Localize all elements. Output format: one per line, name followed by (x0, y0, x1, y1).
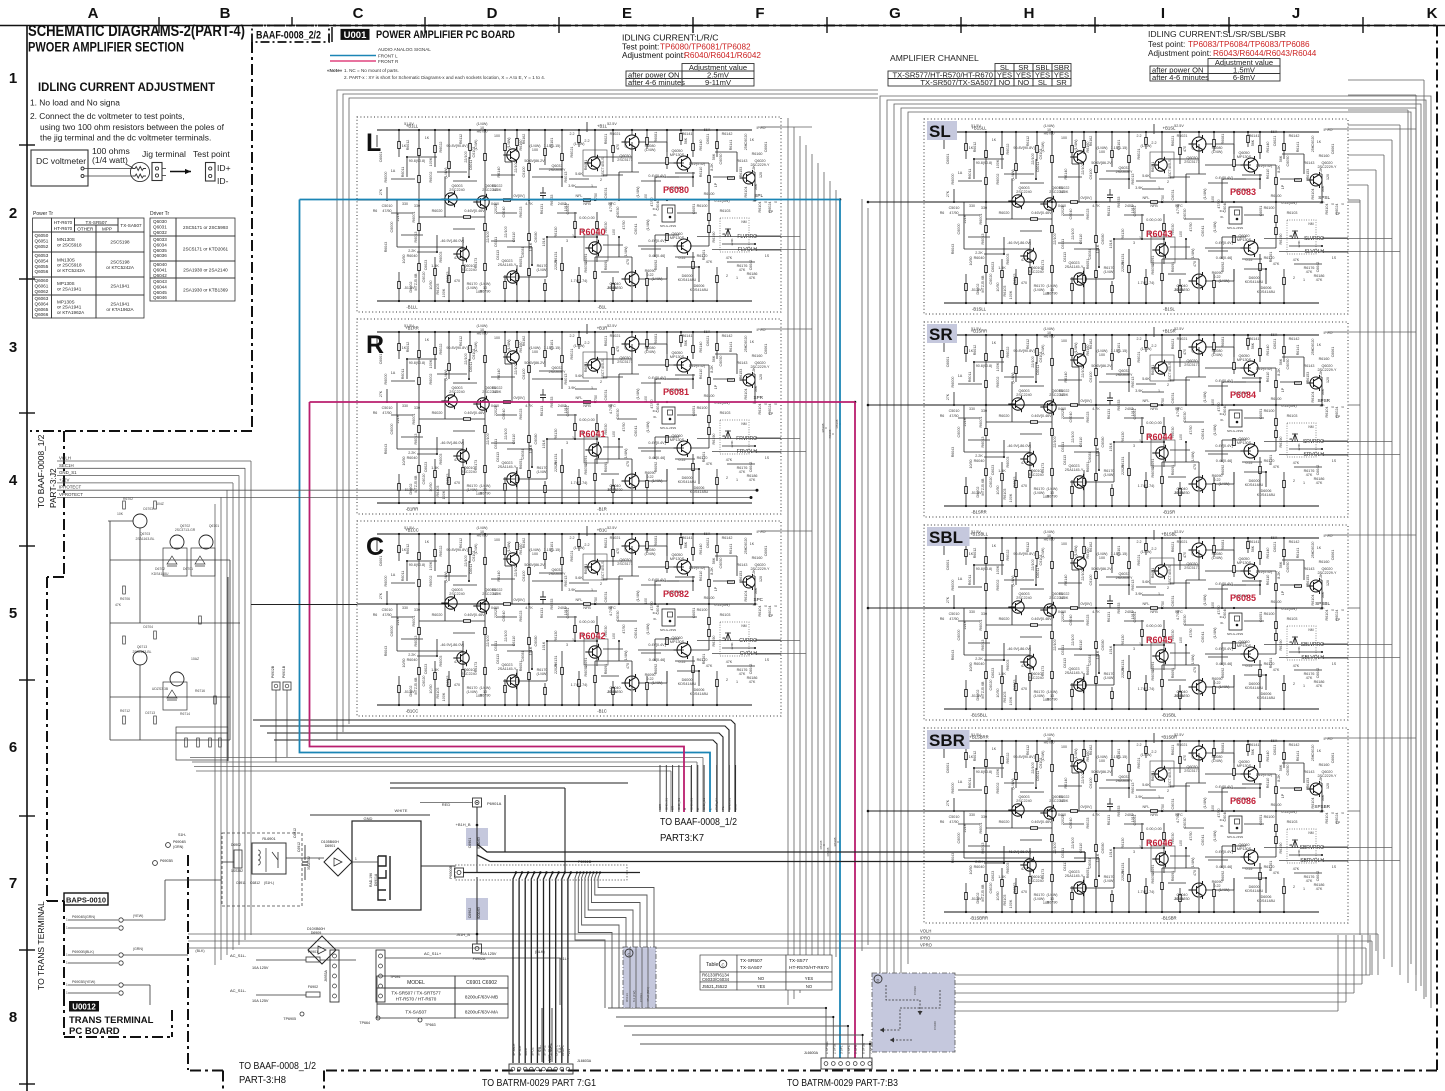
svg-text:2SC5198: 2SC5198 (110, 240, 130, 245)
svg-text:2SA1930 or 2SA2140: 2SA1930 or 2SA2140 (183, 268, 228, 273)
svg-text:SPSBL: SPSBL (1315, 601, 1330, 606)
svg-text:(GRN): (GRN) (133, 947, 143, 951)
SBLVPRO / SBLVOLH output lines (1264, 644, 1348, 646)
power wires (222, 861, 234, 863)
P6901A connector (473, 798, 482, 807)
svg-text:Q6032: Q6032 (153, 230, 167, 235)
svg-text:(1/4 watt): (1/4 watt) (92, 155, 128, 165)
arrow (170, 171, 191, 173)
amplifier channel SR (924, 322, 1348, 517)
svg-text:P6081: P6081 (663, 387, 689, 397)
svg-text:the jig terminal and the dc vo: the jig terminal and the dc voltmeter te… (40, 132, 211, 142)
svg-text:D: D (487, 5, 498, 22)
lavender box C (left) (623, 947, 656, 1008)
svg-text:or KTC5242A: or KTC5242A (57, 268, 86, 273)
svg-text:8: 8 (9, 1009, 17, 1026)
bottom RC cluster (176, 727, 228, 760)
svg-text:C6703: C6703 (143, 507, 153, 511)
svg-text:8200uF/63V-MB: 8200uF/63V-MB (465, 995, 498, 1000)
svg-text:or KTA1962A: or KTA1962A (57, 310, 85, 315)
svg-text:GND_S1: GND_S1 (677, 798, 681, 810)
svg-text:-B1SLL: -B1SLL (972, 307, 987, 312)
amplifier channel L (357, 117, 781, 312)
svg-text:U001: U001 (344, 30, 367, 41)
svg-text:C6912: C6912 (297, 842, 301, 852)
svg-text:HT-R670: HT-R670 (54, 220, 73, 225)
svg-text:SBLVPRO: SBLVPRO (1301, 642, 1324, 648)
table C (700, 955, 737, 972)
svg-text:+B1LL: +B1LL (406, 124, 419, 129)
svg-text:PART-3:H8: PART-3:H8 (239, 1074, 286, 1086)
svg-text:C6902: C6902 (468, 908, 472, 919)
relay dashed box (222, 833, 302, 906)
protection transistor Q6702 (170, 535, 184, 549)
svg-text:TO BATRM-0029 PART 7:G1: TO BATRM-0029 PART 7:G1 (482, 1077, 596, 1089)
svg-text:D6901: D6901 (325, 844, 336, 848)
svg-text:VPRO: VPRO (920, 943, 933, 948)
svg-text:-B1SBRR: -B1SBRR (970, 916, 988, 921)
svg-text:2SA1930 or KTB1369: 2SA1930 or KTB1369 (183, 288, 228, 293)
svg-text:PART3:K7: PART3:K7 (660, 832, 704, 844)
svg-text:PWOER AMPLIFIER SECTION: PWOER AMPLIFIER SECTION (28, 40, 184, 55)
svg-text:FLVOLH: FLVOLH (738, 247, 757, 253)
svg-text:5 SPR: 5 SPR (854, 1044, 858, 1054)
svg-text:P6901A: P6901A (487, 801, 502, 806)
P6903B/P6908B connectors (153, 861, 158, 866)
right vertical bundle (1359, 200, 1361, 935)
svg-text:SR: SR (1056, 78, 1067, 87)
svg-text:Q6713: Q6713 (137, 645, 147, 649)
svg-text:6: 6 (9, 739, 17, 756)
svg-text:1: 1 (66, 953, 68, 957)
svg-text:Adjustment point:: Adjustment point: (622, 51, 685, 60)
svg-text:+B1SL: +B1SL (1163, 126, 1176, 131)
amplifier channel SBR (924, 728, 1348, 923)
P6904B connector (166, 843, 171, 848)
svg-text:4: 4 (9, 472, 18, 489)
svg-text:D6901A: D6901A (374, 873, 378, 886)
svg-text:B: B (220, 5, 231, 22)
svg-text:R6712: R6712 (120, 709, 130, 713)
svg-text:5: 5 (9, 605, 17, 622)
connector TP691 (376, 950, 385, 1002)
protection wires (108, 520, 133, 522)
svg-text:-B1L: -B1L (598, 305, 608, 310)
svg-text:6-8mV: 6-8mV (1233, 73, 1256, 82)
svg-text:AC_S1L-: AC_S1L- (230, 953, 247, 958)
svg-text:NO: NO (806, 984, 813, 989)
svg-text:R6045: R6045 (1146, 635, 1173, 645)
svg-text:SPSBR: SPSBR (1314, 804, 1330, 809)
svg-text:7: 7 (9, 875, 17, 892)
svg-text:Power Tr: Power Tr (33, 211, 53, 217)
page grid frame (0, 25, 1445, 27)
svg-text:using two 100 ohm resistors be: using two 100 ohm resistors between the … (40, 122, 225, 132)
svg-text:P6911B: P6911B (578, 860, 592, 864)
svg-text:GNDPL: GNDPL (555, 1045, 559, 1056)
right bundle bottom turns (955, 974, 1370, 976)
DC voltmeter box (31, 150, 88, 186)
svg-text:SRL: SRL (734, 804, 738, 810)
svg-text:POWER AMPLIFIER PC BOARD: POWER AMPLIFIER PC BOARD (376, 29, 515, 41)
svg-text:JL6603A: JL6603A (577, 1059, 592, 1063)
svg-text:SPRE: SPRE (536, 1047, 540, 1056)
resistor circle (100 ohm resistors) (130, 162, 149, 181)
svg-text:«Note»: «Note» (327, 68, 343, 73)
bridge rectifier D6909 (308, 936, 336, 964)
svg-text:or 2SA1941: or 2SA1941 (57, 287, 82, 292)
svg-text:8200uF/63V-MA: 8200uF/63V-MA (465, 1010, 499, 1015)
svg-text:NO: NO (1018, 78, 1029, 87)
svg-text:VOLH: VOLH (920, 929, 931, 934)
svg-text:AC_S1L+: AC_S1L+ (424, 951, 442, 956)
connector JL6600A (821, 1058, 872, 1069)
svg-text:2SA1163-BL: 2SA1163-BL (133, 650, 152, 654)
svg-text:+B1SR: +B1SR (1162, 329, 1175, 334)
svg-text:Test point:: Test point: (1148, 40, 1185, 49)
svg-text:Jig terminal: Jig terminal (142, 149, 186, 159)
svg-text:CVOLH: CVOLH (740, 651, 758, 657)
svg-text:P6900B: P6900B (449, 865, 453, 878)
svg-text:Q6065: Q6065 (35, 307, 49, 312)
svg-text:SBR: SBR (929, 731, 965, 750)
svg-text:G: G (889, 5, 901, 22)
FRVPRO / FRVOLH output lines (697, 438, 781, 440)
svg-text:SBRVPRO: SBRVPRO (1300, 845, 1324, 851)
svg-text:C6033: C6033 (639, 993, 643, 1002)
svg-text:SBL: SBL (929, 528, 963, 547)
svg-text:2SA1163-BL: 2SA1163-BL (136, 537, 155, 541)
svg-text:+22V: +22V (59, 477, 69, 482)
svg-text:47UJ (50V): 47UJ (50V) (646, 987, 650, 1002)
svg-text:FLVPRO: FLVPRO (737, 234, 757, 240)
CVPRO / CVOLH output lines (697, 640, 781, 642)
amplifier channel SL (924, 119, 1348, 314)
svg-text:P6902B: P6902B (271, 665, 275, 678)
svg-text:Q6033: Q6033 (153, 237, 167, 242)
svg-text:S1H-: S1H- (178, 833, 187, 837)
svg-text:-B1SBL: -B1SBL (1162, 713, 1177, 718)
svg-text:TX-SA507: TX-SA507 (405, 1010, 427, 1015)
svg-text:TX-SR507/TX-SA507: TX-SR507/TX-SA507 (920, 78, 993, 87)
U001 label (341, 29, 370, 40)
svg-text:D6701: D6701 (183, 567, 193, 571)
svg-text:R6040: R6040 (579, 227, 606, 237)
svg-text:P6080: P6080 (663, 185, 689, 195)
svg-text:1. NC = No mount of parts.: 1. NC = No mount of parts. (344, 68, 399, 73)
svg-text:TX-SR507: TX-SR507 (740, 958, 763, 964)
svg-text:TO BATRM-0029 PART-7:B3: TO BATRM-0029 PART-7:B3 (787, 1077, 898, 1089)
trans terminal wires to relay area (123, 919, 165, 921)
svg-text:3: 3 (9, 339, 17, 356)
svg-text:2. PART-x : XY is short for Sc: 2. PART-x : XY is short for Schematic Di… (344, 75, 545, 80)
svg-text:MP130S: MP130S (57, 281, 75, 286)
diode boxes D6702/D6701 (163, 548, 187, 576)
svg-text:MODEL: MODEL (407, 980, 425, 986)
svg-text:SPL: SPL (754, 193, 763, 198)
svg-text:HT-R570 / HT-R670: HT-R570 / HT-R670 (396, 997, 437, 1002)
svg-text:GND_S1: GND_S1 (727, 798, 731, 810)
svg-text:TO BAAF-0008_1/2: TO BAAF-0008_1/2 (660, 816, 737, 828)
svg-text:P6084: P6084 (1230, 390, 1256, 400)
svg-text:RAD-196: RAD-196 (369, 873, 373, 887)
svg-text:+22V: +22V (567, 1048, 571, 1056)
svg-text:R6714: R6714 (180, 712, 190, 716)
svg-text:Table:: Table: (706, 962, 720, 968)
svg-text:1. No load and No signa: 1. No load and No signa (30, 98, 120, 108)
protection transistor Q6703 (133, 514, 147, 528)
svg-text:P6901B: P6901B (282, 665, 286, 678)
svg-text:SPSBLE: SPSBLE (512, 1044, 516, 1056)
svg-text:8.2 (1W): 8.2 (1W) (632, 990, 636, 1002)
svg-text:C6911: C6911 (236, 881, 246, 885)
svg-text:+B1SLL: +B1SLL (971, 126, 987, 131)
svg-text:+B1L: +B1L (597, 124, 608, 129)
svg-text:D6902: D6902 (231, 843, 241, 847)
svg-text:C6040: C6040 (933, 1021, 937, 1030)
svg-text:8200/63: 8200/63 (477, 907, 481, 919)
lavender box E (bottom right) (872, 973, 955, 1052)
svg-text:(S1H-): (S1H-) (264, 881, 274, 885)
svg-text:P6904B(GRN): P6904B(GRN) (72, 915, 95, 919)
svg-text:after 4-6 minutes: after 4-6 minutes (628, 78, 685, 87)
svg-text:P6082: P6082 (663, 589, 689, 599)
svg-text:C6812: C6812 (250, 881, 260, 885)
svg-text:L: L (366, 129, 381, 157)
svg-text:Q6052: Q6052 (35, 244, 49, 249)
BAAF-0008_2/2 board label (252, 26, 329, 43)
svg-text:TX-S577: TX-S577 (789, 958, 808, 964)
svg-text:IDLING CURRENT:SL/SR/SBL/SBR: IDLING CURRENT:SL/SR/SBL/SBR (1148, 29, 1286, 39)
P6911B dashed connector (455, 865, 627, 880)
svg-text:UDZS3.3B: UDZS3.3B (152, 687, 169, 691)
svg-text:GND_S1: GND_S1 (59, 470, 77, 475)
svg-text:9-11mV: 9-11mV (705, 78, 732, 87)
svg-text:GND_S1: GND_S1 (715, 798, 719, 810)
svg-text:-B1SR: -B1SR (1163, 510, 1175, 515)
svg-text:SPCE: SPCE (530, 1047, 534, 1056)
amplifier channel C (357, 521, 781, 716)
svg-text:H: H (1024, 5, 1035, 22)
svg-text:R: R (366, 331, 384, 359)
svg-text:R6042: R6042 (579, 631, 606, 641)
svg-text:C6704: C6704 (143, 625, 153, 629)
vertical feeds from relay area (564, 788, 566, 873)
svg-text:+B1C: +B1C (597, 528, 608, 533)
svg-text:SRVPRO: SRVPRO (1303, 439, 1324, 445)
svg-text:C6033/C6034: C6033/C6034 (702, 977, 730, 982)
svg-text:1: 1 (66, 918, 68, 922)
protection transistor Q6701 (199, 535, 213, 549)
svg-text:SBRVOLH: SBRVOLH (1300, 858, 1324, 864)
svg-text:TX-SR507: TX-SR507 (86, 220, 108, 225)
svg-text:J5521,J5522: J5521,J5522 (702, 984, 728, 989)
svg-text:or 2SC5918: or 2SC5918 (57, 263, 82, 268)
MODEL table (377, 976, 455, 988)
svg-text:MPP: MPP (102, 227, 112, 232)
svg-text:TX-SR507 / TX-SRT577: TX-SR507 / TX-SRT577 (391, 991, 441, 996)
svg-text:or 2SA1941: or 2SA1941 (57, 305, 82, 310)
svg-text:JL6600A: JL6600A (804, 1051, 819, 1055)
svg-text:SPC: SPC (754, 597, 764, 602)
svg-text:RL6901: RL6901 (262, 837, 275, 841)
svg-text:AUDIO ANALOG SIGNAL: AUDIO ANALOG SIGNAL (378, 47, 431, 52)
svg-text:2SC5171 or KTD2061: 2SC5171 or KTD2061 (183, 247, 229, 252)
svg-text:IPRO: IPRO (920, 936, 931, 941)
svg-text:Q6031: Q6031 (153, 224, 167, 229)
connector J6953A (330, 950, 339, 1002)
svg-text:SPSRE: SPSRE (543, 1045, 547, 1056)
left border segments (251, 42, 253, 431)
svg-text:D: D (877, 978, 880, 983)
C channel input wire (251, 604, 357, 606)
svg-text:SPSLE: SPSLE (518, 1046, 522, 1056)
svg-text:C6030: C6030 (913, 986, 917, 995)
svg-text:(YEW): (YEW) (133, 914, 144, 918)
svg-text:1: 1 (355, 857, 357, 861)
svg-text:2SA1941: 2SA1941 (111, 302, 130, 307)
svg-text:P6085: P6085 (1230, 593, 1256, 603)
S1L wires down (541, 1008, 543, 1062)
svg-text:1: 1 (66, 983, 68, 987)
bottom border (324, 1070, 1437, 1072)
adjustment table SL/SR (1208, 59, 1280, 67)
BAPS pins (68, 919, 118, 921)
svg-text:+B1RR: +B1RR (405, 326, 419, 331)
svg-text:FL: FL (721, 806, 725, 810)
svg-text:FRONT R: FRONT R (378, 59, 399, 64)
svg-text:I: I (1161, 5, 1165, 22)
vertical bus (227, 577, 229, 761)
svg-text:Q6035: Q6035 (153, 248, 167, 253)
SRVPRO / SRVOLH output lines (1264, 441, 1348, 443)
svg-text:SL: SL (929, 122, 951, 141)
svg-text:J: J (1292, 5, 1300, 22)
heatsink RAD-196 D6901A (378, 856, 390, 900)
svg-text:Q6064: Q6064 (35, 301, 49, 306)
svg-text:P6086: P6086 (1230, 796, 1256, 806)
svg-text:OTHER: OTHER (77, 227, 94, 232)
protection resistors (123, 501, 126, 509)
svg-text:FRVPRO: FRVPRO (736, 436, 757, 442)
svg-text:R6044: R6044 (1146, 432, 1173, 442)
svg-text:SL: SL (1038, 78, 1047, 87)
svg-text:C6713: C6713 (145, 711, 155, 715)
svg-text:+B1CC: +B1CC (405, 528, 419, 533)
mid horizontals bundle gray (190, 757, 703, 759)
svg-text:F6901: F6901 (308, 950, 318, 954)
svg-text:P6083: P6083 (1230, 187, 1256, 197)
svg-text:-B1SL: -B1SL (1163, 307, 1175, 312)
P6902A connector (473, 944, 482, 953)
svg-text:R6046: R6046 (1146, 838, 1173, 848)
svg-text:-B1SRR: -B1SRR (971, 510, 986, 515)
svg-text:D6702: D6702 (155, 567, 165, 571)
svg-text:1: 1 (66, 926, 68, 930)
U0012 label (69, 1001, 99, 1012)
svg-text:CVPRO: CVPRO (739, 638, 757, 644)
svg-text:SRVOLH: SRVOLH (1304, 452, 1325, 458)
svg-text:HT-R570/HT-R670: HT-R570/HT-R670 (789, 965, 829, 971)
amplifier channel SBL (924, 525, 1348, 720)
svg-text:AC_S1L-: AC_S1L- (230, 988, 247, 993)
svg-text:A: A (88, 5, 99, 22)
svg-text:2SA1941: 2SA1941 (111, 284, 130, 289)
svg-text:1SS352: 1SS352 (231, 869, 243, 873)
amplifier channel R (357, 319, 781, 514)
K7 connector bundle (659, 765, 661, 812)
svg-text:33AJ/50V: 33AJ/50V (307, 855, 311, 870)
main gnd rail line (463, 872, 640, 874)
svg-text:TO TRANS TERMINAL: TO TRANS TERMINAL (36, 901, 46, 990)
svg-text:VPROTECT: VPROTECT (59, 492, 83, 497)
svg-text:Q6042: Q6042 (153, 273, 167, 278)
svg-text:Q6055: Q6055 (35, 264, 49, 269)
svg-text:+B1SBL: +B1SBL (1161, 532, 1177, 537)
svg-text:R6043/R6044/R6043/R6044: R6043/R6044/R6043/R6044 (1213, 49, 1317, 58)
svg-text:SLVPRO: SLVPRO (1304, 236, 1324, 242)
svg-text:KDS4148U: KDS4148U (152, 572, 170, 576)
svg-text:Q6053: Q6053 (35, 253, 49, 258)
block port stub wires (781, 236, 800, 238)
svg-text:Q6051: Q6051 (35, 238, 49, 243)
svg-text:TP6083/TP6084/TP6083/TP6086: TP6083/TP6084/TP6083/TP6086 (1188, 40, 1310, 49)
svg-text:Q6030: Q6030 (153, 219, 167, 224)
trans terminal dash-dot box (63, 995, 65, 1037)
svg-text:C: C (721, 963, 724, 968)
svg-text:R6043: R6043 (1146, 229, 1173, 239)
svg-text:+B1R: +B1R (597, 326, 608, 331)
svg-text:TP6905: TP6905 (283, 1017, 296, 1021)
svg-text:Q6062: Q6062 (35, 289, 49, 294)
svg-text:Q6046: Q6046 (153, 295, 167, 300)
svg-text:-B1SBLL: -B1SBLL (971, 713, 988, 718)
svg-text:Q6061: Q6061 (35, 283, 49, 288)
svg-text:+B1H_B: +B1H_B (455, 822, 470, 827)
svg-text:IDLING CURRENT ADJUSTMENT: IDLING CURRENT ADJUSTMENT (38, 80, 216, 94)
svg-text:TP691: TP691 (390, 975, 401, 979)
svg-text:R6706: R6706 (120, 597, 130, 601)
svg-text:BAPS-0010: BAPS-0010 (66, 896, 106, 905)
svg-text:10K: 10K (117, 512, 124, 516)
svg-text:+B1SBR: +B1SBR (1161, 735, 1177, 740)
svg-text:HT-R670: HT-R670 (54, 226, 73, 231)
bridge rectifier D6901 (324, 848, 352, 876)
protection transistor Q6713 (133, 651, 147, 665)
svg-text:TP663: TP663 (425, 1023, 436, 1027)
svg-text:(GRN): (GRN) (173, 845, 183, 849)
nested wire loops around right column (880, 96, 1431, 1008)
svg-text:Q6054: Q6054 (35, 258, 49, 263)
svg-text:SPSL: SPSL (1318, 195, 1330, 200)
svg-text:GND_S1: GND_S1 (690, 798, 694, 810)
svg-text:2SC5198: 2SC5198 (110, 260, 130, 265)
svg-text:2. Connect the dc voltmeter t: 2. Connect the dc voltmeter to test poin… (30, 111, 185, 121)
svg-text:+B1SBRR: +B1SBRR (969, 735, 988, 740)
svg-text:-B1LL: -B1LL (406, 305, 418, 310)
svg-text:-B1SBR: -B1SBR (1161, 916, 1176, 921)
svg-text:or KTC5242A: or KTC5242A (106, 265, 135, 270)
svg-text:SPSBRE: SPSBRE (549, 1043, 553, 1056)
svg-text:Test point: Test point (193, 149, 230, 159)
svg-text:SLVOLH: SLVOLH (1305, 249, 1325, 255)
svg-text:IPROTECT: IPROTECT (59, 485, 82, 490)
svg-text:BAAF-0008_2/2: BAAF-0008_2/2 (256, 30, 321, 42)
svg-text:C6812: C6812 (293, 828, 297, 838)
svg-text:Q6044: Q6044 (153, 284, 167, 289)
svg-text:TP664: TP664 (359, 1021, 370, 1025)
svg-text:SBLVOLH: SBLVOLH (1301, 655, 1324, 661)
